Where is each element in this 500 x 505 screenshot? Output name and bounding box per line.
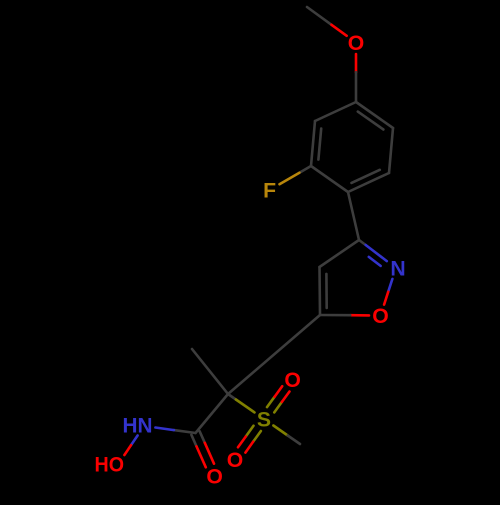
svg-text:N: N (390, 258, 405, 281)
svg-text:O: O (284, 369, 300, 392)
svg-text:HO: HO (95, 454, 125, 477)
svg-text:O: O (206, 466, 222, 489)
svg-text:O: O (372, 305, 388, 328)
svg-text:F: F (263, 180, 276, 203)
svg-text:S: S (257, 409, 271, 432)
svg-text:HN: HN (123, 415, 153, 438)
svg-text:O: O (227, 449, 243, 472)
svg-text:O: O (348, 32, 364, 55)
